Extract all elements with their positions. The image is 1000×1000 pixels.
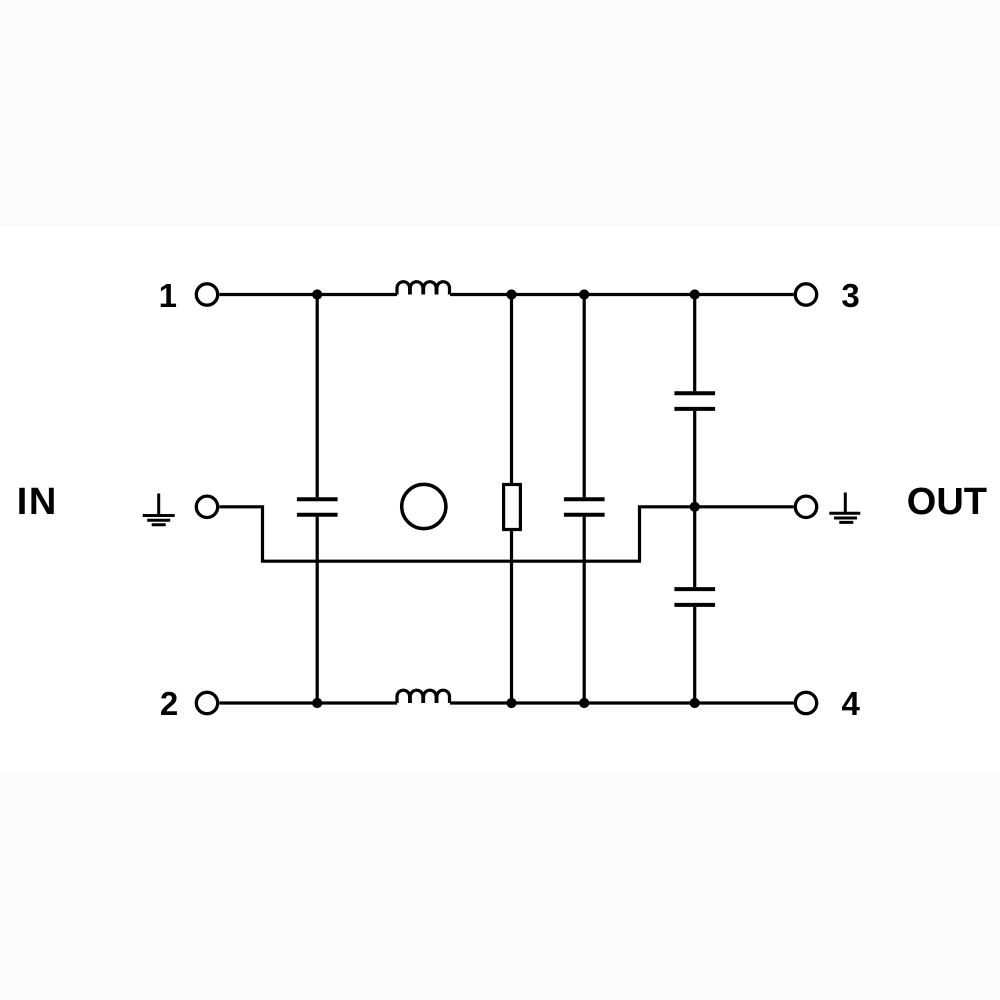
svg-text:1: 1 <box>159 277 177 314</box>
svg-text:3: 3 <box>841 277 859 314</box>
svg-text:2: 2 <box>160 685 178 722</box>
svg-text:OUT: OUT <box>907 481 987 523</box>
svg-text:IN: IN <box>17 481 58 523</box>
svg-text:4: 4 <box>842 685 861 722</box>
